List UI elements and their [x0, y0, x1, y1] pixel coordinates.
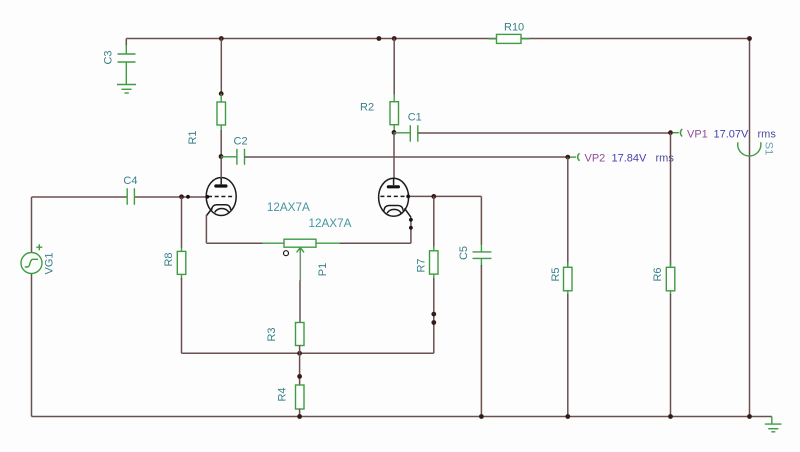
svg-text:12AX7A: 12AX7A	[309, 217, 352, 230]
node cathode pin b	[409, 226, 413, 230]
wire left edge vertical (above VG1)	[31, 197, 33, 253]
triode U2 (right half 12AX7A)	[379, 178, 411, 217]
capacitor C5	[473, 244, 492, 266]
svg-text:R5: R5	[550, 267, 562, 281]
capacitor C3	[118, 39, 136, 85]
svg-text:R7: R7	[415, 258, 427, 272]
wire right edge vertical	[749, 39, 751, 417]
triode U1 (left half 12AX7A)	[206, 158, 236, 216]
wire cathode row horizontal	[182, 352, 434, 354]
node R7 pin a	[431, 312, 436, 317]
svg-text:R3: R3	[266, 327, 278, 341]
label VP2 value	[585, 153, 675, 165]
node R5 bus	[565, 414, 570, 419]
node cathode pin a	[409, 218, 413, 222]
svg-text:VP1: VP1	[687, 129, 708, 141]
wire tube2 grid to C5 corner	[408, 195, 481, 197]
wire P1 wiper down to R3	[299, 281, 301, 323]
resistor R4	[296, 385, 305, 409]
wire input row C4 to tube1 grid	[134, 196, 207, 198]
wire C5 column lower	[480, 265, 482, 417]
potentiometer P1	[262, 239, 340, 281]
node top-right corner	[747, 36, 752, 41]
node top of R1	[219, 36, 224, 41]
svg-text:R6: R6	[652, 267, 664, 281]
node R1/C2/plate	[219, 154, 224, 159]
svg-text:VG1: VG1	[43, 252, 55, 274]
ground (below C3)	[117, 85, 136, 94]
capacitor C1	[394, 125, 418, 142]
node VP2 tap	[565, 155, 570, 160]
svg-text:17.07V: 17.07V	[714, 129, 750, 141]
node R4 bus	[297, 414, 302, 419]
resistor R2	[390, 94, 399, 132]
svg-text:S1: S1	[763, 142, 775, 155]
svg-text:C5: C5	[458, 246, 470, 260]
wire C1 to VP1	[418, 132, 671, 134]
wire R5 column upper	[567, 157, 569, 266]
node VP1 tap	[668, 130, 673, 135]
resistor R6	[666, 263, 675, 296]
resistor R1	[217, 94, 226, 132]
svg-text:12AX7A: 12AX7A	[267, 201, 310, 214]
wire R1 to tube1 plate node	[220, 130, 222, 157]
svg-text:R2: R2	[360, 102, 374, 114]
wire R7 column upper	[433, 196, 435, 247]
wire tube2 cathode down	[410, 218, 412, 244]
node tube1 grid pin	[205, 195, 209, 199]
wire R3 to R4	[299, 346, 301, 386]
capacitor C2	[221, 149, 245, 165]
wire R6 column upper	[670, 133, 672, 266]
node tube2 grid / R7 top	[431, 194, 436, 199]
node grid wire a	[179, 194, 184, 199]
wire R6 column lower	[670, 294, 672, 417]
wire tube2 cathode to P1	[339, 242, 411, 244]
node bottom-right corner	[747, 414, 752, 419]
node above R1	[219, 91, 224, 96]
wire R1 upper	[220, 39, 222, 94]
node R3 bottom junction	[297, 351, 302, 356]
wire R4 to bus	[299, 409, 301, 417]
wire R2 upper	[393, 39, 395, 96]
probe S1 arc	[738, 142, 761, 156]
svg-text:17.84V: 17.84V	[612, 153, 648, 165]
svg-text:C3: C3	[102, 50, 114, 64]
svg-text:C1: C1	[408, 112, 422, 124]
source VG1	[21, 244, 42, 273]
node tube2 grid pin	[406, 195, 410, 199]
wire tube1 cathode to P1	[206, 242, 263, 244]
resistor R3	[296, 323, 305, 346]
resistor R8	[177, 247, 186, 279]
label VP1 value	[687, 129, 776, 141]
svg-text:R1: R1	[187, 130, 199, 144]
svg-text:C2: C2	[234, 136, 248, 148]
wire input row left segment	[32, 196, 128, 198]
svg-text:VP2: VP2	[585, 153, 606, 165]
node top wire stub	[377, 36, 382, 41]
wire C2 to VP2	[245, 156, 568, 158]
wire R5 column lower	[567, 294, 569, 417]
svg-text:P1: P1	[317, 263, 329, 276]
resistor R10	[489, 34, 530, 43]
wire R8 column lower	[181, 278, 183, 353]
node R2/C1/plate	[392, 130, 397, 135]
wire bottom bus	[32, 416, 772, 418]
svg-text:R8: R8	[163, 252, 175, 266]
svg-text:R10: R10	[504, 22, 524, 34]
wire R2 node to tube2 plate	[393, 132, 395, 178]
node R4 top pin	[297, 374, 302, 379]
node R6 bus	[668, 414, 673, 419]
wire R8 column upper	[181, 197, 183, 248]
node grid wire b	[186, 195, 190, 199]
svg-text:rms: rms	[758, 129, 777, 141]
wire C5 column upper	[480, 196, 482, 245]
ground (bottom right)	[765, 417, 782, 432]
node R7 pin b	[431, 320, 436, 325]
capacitor C4	[127, 188, 134, 205]
node top of R2	[392, 36, 397, 41]
svg-text:R4: R4	[276, 387, 288, 401]
svg-text:C4: C4	[123, 175, 137, 187]
wire top bus	[126, 38, 749, 40]
resistor R5	[564, 263, 573, 296]
wire tube1 cathode down	[205, 215, 207, 243]
resistor R7	[430, 246, 439, 279]
probe VP1	[673, 129, 682, 137]
wire R7 column lower	[433, 278, 435, 353]
svg-text:rms: rms	[656, 153, 675, 165]
node C5 bus	[479, 414, 484, 419]
wire left edge vertical (below VG1)	[31, 274, 33, 417]
probe VP2	[570, 153, 579, 161]
